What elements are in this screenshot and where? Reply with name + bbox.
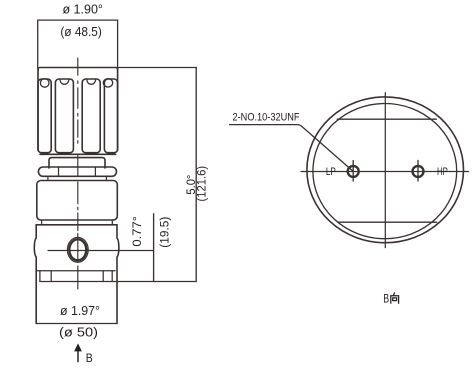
svg-text:ø 1.97°: ø 1.97° [60,303,100,318]
port LP vertical tick [352,161,354,181]
B-view outer circle [307,97,464,243]
svg-text:(19.5): (19.5) [160,217,172,248]
svg-text:(ø 48.5): (ø 48.5) [60,24,102,39]
arrow B (view direction) [77,350,79,362]
lower body top edge [36,224,117,226]
sub-neck left [47,176,49,180]
sub-neck right [105,176,107,180]
knob top edge [38,68,118,71]
step tick left [41,220,43,225]
band tick 3 [102,271,104,282]
wrench band bottom line with extension [40,281,196,283]
svg-text:ø 1.90°: ø 1.90° [62,2,103,17]
port LP circle [348,166,359,177]
flange inner line left [58,167,60,176]
upper body block [37,181,118,221]
wrench band top line [36,270,115,272]
knurl rib R1 ball end circle [40,79,49,88]
B-view vertical centerline [384,93,386,248]
arrow B head [74,343,82,351]
lower body left side with bulge [34,225,36,324]
svg-text:HP: HP [437,166,448,178]
knob left side [37,68,39,150]
svg-text:B: B [86,353,93,365]
svg-text:2-NO.10-32UNF: 2-NO.10-32UNF [233,112,300,124]
flange inner line right [94,167,96,176]
knurl rib R3 [82,79,100,153]
dimension D3 line overall height 5.0 (121.6) [195,68,197,282]
B-view bottom chord [339,221,437,223]
knurl rib R4 [104,79,117,153]
port HP vertical tick [417,160,419,181]
hole horizontal center mark [48,250,154,252]
svg-text:(121.6): (121.6) [197,166,209,202]
knob right side [117,68,119,150]
B-view horizontal centerline [301,171,469,173]
knurl rib R2 [55,79,73,153]
port HP circle [413,166,424,177]
knurl rib R3 fillet arc [87,80,96,85]
dimension D3 extension top (overall height) [118,67,197,69]
lower body right side with bulge [117,225,119,324]
neck collar [49,158,105,168]
B-view inner circle [313,104,457,239]
knurl rib R4 ball end circle [103,79,112,87]
band tick 2 [50,271,52,282]
svg-text:(ø 50): (ø 50) [59,324,98,339]
knurl rib R2 fillet arc [60,80,69,85]
svg-text:B: B [383,292,389,306]
glyph 向 (drawn) [391,293,399,303]
side hole inner ring [69,239,86,260]
centerline knob axis [77,58,79,289]
knob bottom edge [40,153,116,155]
svg-text:0.77°: 0.77° [132,216,144,247]
band tick 1 [39,271,41,282]
B-view top chord [337,118,436,120]
knurl rib R1 [38,79,51,153]
flange capsule [38,167,116,176]
band tick 4 [111,271,113,282]
dimension D2 bottom line (ø1.97 / ø50) [36,323,117,325]
leader line for 2-NO.10-32UNF [230,125,354,172]
dimension D4 line hole height 0.77 (19.5) [153,214,155,282]
svg-text:LP: LP [326,166,336,178]
step tick right [111,220,113,225]
side hole outer ring [67,237,88,262]
dimension D1 top bracket (ø1.90 / ø48.5) [38,20,118,67]
